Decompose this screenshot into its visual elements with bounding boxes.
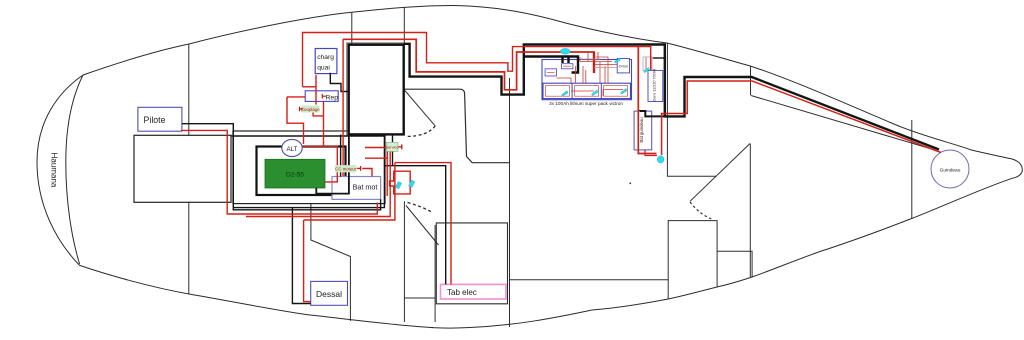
wire red B left vertical	[342, 39, 344, 176]
junction dot	[663, 57, 666, 60]
bow tall cabinet	[668, 221, 752, 299]
fuse at CC moteur	[357, 166, 361, 171]
bulkheads and furniture lines	[134, 8, 935, 327]
wire black bundle 207 to tab elec	[233, 166, 445, 285]
arrow battery cell 1	[562, 91, 569, 97]
wire black long y136	[231, 136, 384, 166]
svg-text:Couplage: Couplage	[301, 107, 320, 112]
bulkhead x750 lower segment	[749, 144, 751, 278]
Couplage label	[301, 106, 320, 113]
Service label	[386, 142, 398, 151]
wire red rep-couplage cluster	[287, 97, 305, 144]
battery pink link lines	[580, 59, 617, 68]
footwell outline	[404, 89, 510, 163]
svg-text:3x 100Ah lithium super pack vi: 3x 100Ah lithium super pack victron	[549, 101, 623, 106]
svg-text:charg: charg	[317, 54, 334, 61]
Tab elec box	[441, 284, 506, 299]
svg-text:CC moteur: CC moteur	[335, 167, 356, 172]
stern outer curve	[37, 75, 83, 265]
svg-text:Service: Service	[385, 144, 399, 149]
Conv 12/220 box	[648, 70, 663, 101]
arrow near conv top	[644, 68, 650, 73]
wire black conv link	[653, 57, 665, 59]
svg-text:Dessal: Dessal	[316, 289, 342, 299]
cabin diagonal mid-bow	[690, 144, 750, 202]
nav furniture mid	[311, 204, 351, 321]
engine compartment box	[233, 131, 385, 204]
busbar terminals	[563, 57, 569, 64]
Rep box	[305, 91, 338, 102]
wire black service vertical	[392, 134, 394, 166]
battery pack outer box	[542, 60, 632, 100]
CC moteur label	[335, 165, 357, 172]
wire red loop around arrows	[390, 171, 411, 194]
wire red service vertical	[386, 151, 388, 196]
svg-text:Bat mot: Bat mot	[353, 183, 378, 192]
battery cell inner red outlines	[546, 86, 628, 97]
arrow battery cell 2	[592, 90, 599, 96]
Bat mot box	[332, 177, 381, 200]
door swing arc lower (dashed)	[408, 203, 433, 213]
wire red bundle 216	[246, 149, 390, 217]
charg quai box	[315, 49, 337, 74]
wire black engine to bat mot	[316, 135, 349, 194]
arrow at engine right 1	[395, 182, 402, 189]
svg-text:ALT: ALT	[287, 146, 298, 153]
bulkhead x352 top segment	[351, 12, 353, 44]
bulkhead x509	[509, 78, 511, 327]
ALT alternator circle	[282, 139, 302, 156]
bulkhead x404 top segment	[403, 8, 405, 45]
door leaf upper	[404, 89, 436, 126]
small dot mark	[630, 183, 632, 185]
saloon table rectangle	[134, 135, 231, 202]
wire red to tab elec	[395, 163, 451, 285]
wire red A stub	[303, 86, 317, 88]
big black box (companionway)	[347, 43, 405, 136]
engine thick box	[257, 147, 346, 196]
smartshunt small box	[562, 64, 573, 69]
fuse at Couplage	[300, 107, 304, 112]
long shelf line to bow cabinets	[509, 279, 668, 281]
wire red battery thick	[593, 52, 595, 73]
door swing arc upper (dashed)	[406, 126, 436, 137]
fuse inside Rep	[322, 94, 326, 99]
svg-text:Haumana: Haumana	[50, 153, 59, 188]
cyan ellipse on top wire	[560, 48, 570, 54]
wire red stub to service label	[365, 148, 387, 159]
fuse at Service	[398, 144, 402, 149]
small purple box above Conv	[643, 57, 652, 70]
wire black main negative (thick)	[404, 44, 939, 150]
door leaf lower	[406, 206, 439, 246]
svg-text:Tab elec: Tab elec	[447, 288, 477, 297]
black pack feed wire with busbar	[524, 57, 578, 73]
wire red guindeau pair	[662, 81, 941, 155]
Guindeau circle	[931, 150, 969, 188]
cabinet left of tab elec	[404, 201, 435, 322]
wire black bat guindeau steps	[640, 111, 665, 116]
wire red bundle 220 + dessal	[304, 163, 395, 302]
wire pilote black	[182, 124, 381, 210]
engine D2-55 green block	[265, 159, 325, 188]
svg-text:Conv 12/220 700VA: Conv 12/220 700VA	[652, 68, 656, 101]
wire red B top: around big box to battery bus	[343, 39, 594, 90]
battery 3-cell box	[543, 83, 631, 98]
wire red C: battery to bat guindeau	[638, 47, 656, 154]
deck line bow	[751, 96, 935, 151]
cyan blob bottom	[657, 156, 664, 163]
Pilote box	[138, 107, 182, 131]
wire black bat mot links	[340, 135, 342, 177]
bulkhead x667 with cabin line	[667, 43, 716, 176]
wire red cc moteur to bat mot	[362, 169, 372, 177]
bulkhead x189	[188, 44, 190, 294]
svg-text:Rep: Rep	[326, 94, 339, 101]
svg-text:quai: quai	[317, 64, 330, 71]
stern inner transom curve	[66, 75, 83, 264]
arrow at engine right 2	[408, 180, 415, 187]
bulkhead x912	[911, 120, 913, 218]
Bat guindeau box	[634, 111, 652, 150]
wire red A: charg quai to conv	[303, 33, 651, 87]
arrow battery cell 3	[621, 88, 628, 94]
svg-text:Pilote: Pilote	[144, 115, 166, 125]
tab elec cabinet	[436, 223, 507, 304]
door swing arc bow (dashed)	[690, 202, 713, 220]
Dessal box	[311, 281, 348, 305]
wire black dessal	[292, 208, 310, 304]
wire red pilote	[181, 130, 377, 214]
svg-text:Orion: Orion	[619, 65, 628, 69]
battery area thin red mesh	[557, 52, 647, 96]
svg-text:Bat guindeau: Bat guindeau	[639, 117, 644, 143]
wire red bat guindeau bottom	[645, 150, 657, 156]
svg-text:D2-55: D2-55	[286, 172, 304, 179]
svg-text:Guindeau: Guindeau	[940, 167, 961, 173]
wire black charg quai	[330, 73, 348, 92]
Orion box	[617, 59, 629, 73]
arrow near orion	[615, 58, 621, 63]
bulkhead x750 upper segment	[750, 66, 752, 95]
left small box (mppt)	[545, 69, 556, 76]
